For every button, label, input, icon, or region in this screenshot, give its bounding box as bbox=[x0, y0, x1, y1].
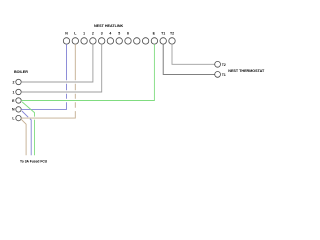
wire: heat link 3 to boiler 1 (grey) bbox=[21, 44, 102, 92]
terminal unlabeled B bbox=[142, 38, 148, 44]
svg-text:1: 1 bbox=[13, 90, 15, 94]
boiler terminal L bbox=[16, 115, 21, 120]
BOILER label bbox=[14, 70, 28, 74]
svg-text:6: 6 bbox=[127, 32, 129, 36]
boiler terminal E bbox=[16, 98, 21, 103]
wire: boiler N branch to FCU (blue) bbox=[22, 111, 31, 155]
svg-text:T2: T2 bbox=[222, 63, 226, 67]
To 3A Fused FCU label bbox=[20, 160, 48, 164]
wire: boiler E branch to FCU (green) with hop gap at brown wire bbox=[22, 102, 34, 155]
wire: heat link E to boiler E (green) bbox=[21, 44, 154, 100]
wire: heat link N to boiler N (blue) with hop gaps bbox=[21, 44, 66, 109]
boiler terminal circles bbox=[16, 79, 21, 121]
svg-text:NEST HEATLINK: NEST HEATLINK bbox=[94, 24, 124, 28]
terminal T2 bbox=[169, 38, 175, 44]
boiler terminal labels bbox=[12, 80, 15, 120]
terminal N bbox=[63, 38, 69, 44]
wire: heat link T1 to thermostat T1 (dark grey) bbox=[163, 44, 215, 74]
svg-text:1: 1 bbox=[83, 32, 85, 36]
svg-text:NEST THERMOSTAT: NEST THERMOSTAT bbox=[228, 69, 265, 73]
terminal 1 bbox=[81, 38, 87, 44]
thermostat terminal T1 bbox=[215, 72, 221, 78]
terminal E bbox=[151, 38, 157, 44]
thermostat label T1 bbox=[222, 73, 226, 77]
svg-text:T1: T1 bbox=[222, 73, 226, 77]
wire: boiler L branch to FCU (tan) bbox=[22, 120, 27, 156]
boiler terminal 1 bbox=[16, 89, 21, 94]
terminal 6 bbox=[125, 38, 131, 44]
terminal 2 bbox=[90, 38, 96, 44]
wire: heat link T2 to thermostat T2 (grey) bbox=[172, 44, 215, 64]
boiler terminal 2 bbox=[16, 79, 21, 84]
svg-text:2: 2 bbox=[13, 80, 15, 84]
boiler terminal N bbox=[16, 107, 21, 112]
terminal 5 bbox=[116, 38, 122, 44]
heat link terminal labels row bbox=[65, 32, 174, 36]
thermostat terminal T2 bbox=[215, 61, 221, 67]
wire: heat link 2 to boiler 2 (grey) bbox=[21, 44, 93, 82]
svg-text:2: 2 bbox=[92, 32, 94, 36]
svg-text:BOILER: BOILER bbox=[14, 70, 28, 74]
thermostat label T2 bbox=[222, 63, 226, 67]
heat link terminal circles bbox=[63, 38, 175, 44]
svg-text:T2: T2 bbox=[170, 32, 174, 36]
terminal 3 bbox=[99, 38, 105, 44]
svg-text:To 3A Fused FCU: To 3A Fused FCU bbox=[20, 160, 48, 164]
NEST THERMOSTAT label bbox=[228, 69, 265, 73]
terminal 4 bbox=[107, 38, 113, 44]
svg-text:3: 3 bbox=[101, 32, 103, 36]
wire: heat link L to boiler L (tan) with hop gaps bbox=[21, 44, 75, 118]
svg-text:5: 5 bbox=[118, 32, 120, 36]
svg-text:T1: T1 bbox=[161, 32, 165, 36]
svg-text:4: 4 bbox=[109, 32, 111, 36]
NEST HEATLINK label bbox=[94, 24, 124, 28]
terminal L bbox=[72, 38, 78, 44]
terminal unlabeled A bbox=[134, 38, 140, 44]
terminal T1 bbox=[160, 38, 166, 44]
